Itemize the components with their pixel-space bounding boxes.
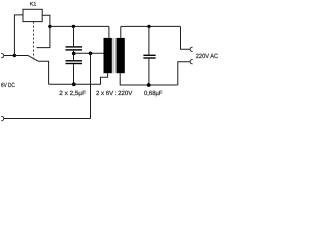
node: tap / return junction bbox=[89, 52, 93, 56]
capacitor C2 (2,5uF) bbox=[66, 54, 83, 85]
terminal J2 (6V DC minus) bbox=[1, 116, 4, 120]
capacitor C1 (2,5uF) bbox=[66, 26, 83, 53]
wire: top bus secondary side bbox=[121, 25, 181, 27]
terminal J3 (220V AC upper) bbox=[190, 47, 193, 51]
svg-text:220V AC: 220V AC bbox=[196, 53, 219, 60]
svg-text:6V DC: 6V DC bbox=[1, 82, 15, 89]
wire: lower fixed contact bbox=[38, 61, 48, 84]
wire bbox=[4, 55, 15, 57]
wire: top bus primary side bbox=[50, 25, 109, 27]
capacitor C3 (0,68uF) bbox=[143, 26, 155, 85]
wire: secondary top lead bbox=[120, 26, 122, 38]
wire: primary top lead bbox=[108, 26, 110, 38]
wire: centre tap to transformer bbox=[74, 52, 104, 54]
wire: to upper output terminal bbox=[181, 26, 191, 49]
wire: upper fixed contact of relay bbox=[37, 26, 50, 47]
wire: bottom rail bbox=[4, 118, 91, 120]
terminal J1 (6V DC plus) bbox=[1, 53, 4, 57]
relay switch blade bbox=[14, 56, 38, 62]
wire: return to bottom rail bbox=[90, 53, 92, 118]
transformer TR1 primary winding bbox=[104, 38, 112, 73]
svg-text:0,68µF: 0,68µF bbox=[144, 90, 163, 97]
node: switch common junction bbox=[13, 54, 16, 57]
wire bbox=[42, 15, 50, 26]
svg-text:2 x 6V : 220V: 2 x 6V : 220V bbox=[96, 90, 133, 97]
node: capacitor midpoint bbox=[72, 52, 76, 56]
wire: secondary bottom lead bbox=[120, 73, 177, 85]
relay coil K1 bbox=[23, 9, 42, 21]
svg-text:K1: K1 bbox=[30, 1, 36, 7]
node: bus / coil / contact junction bbox=[48, 25, 51, 28]
node: C3 top junction bbox=[147, 25, 150, 28]
node: C3 bottom junction bbox=[147, 83, 151, 87]
node: C2 bottom junction bbox=[72, 82, 76, 86]
transformer core bbox=[113, 38, 116, 73]
wire bbox=[14, 15, 23, 56]
node: C1 top junction bbox=[72, 25, 75, 28]
terminal J4 (220V AC lower) bbox=[190, 60, 193, 64]
wire: to lower output terminal bbox=[178, 62, 191, 85]
transformer TR1 secondary winding bbox=[117, 38, 125, 73]
svg-text:2 x 2,5µF: 2 x 2,5µF bbox=[59, 90, 86, 97]
dashed actuation link K1 bbox=[33, 22, 35, 60]
wire: lower contact to primary bottom bbox=[49, 73, 108, 84]
